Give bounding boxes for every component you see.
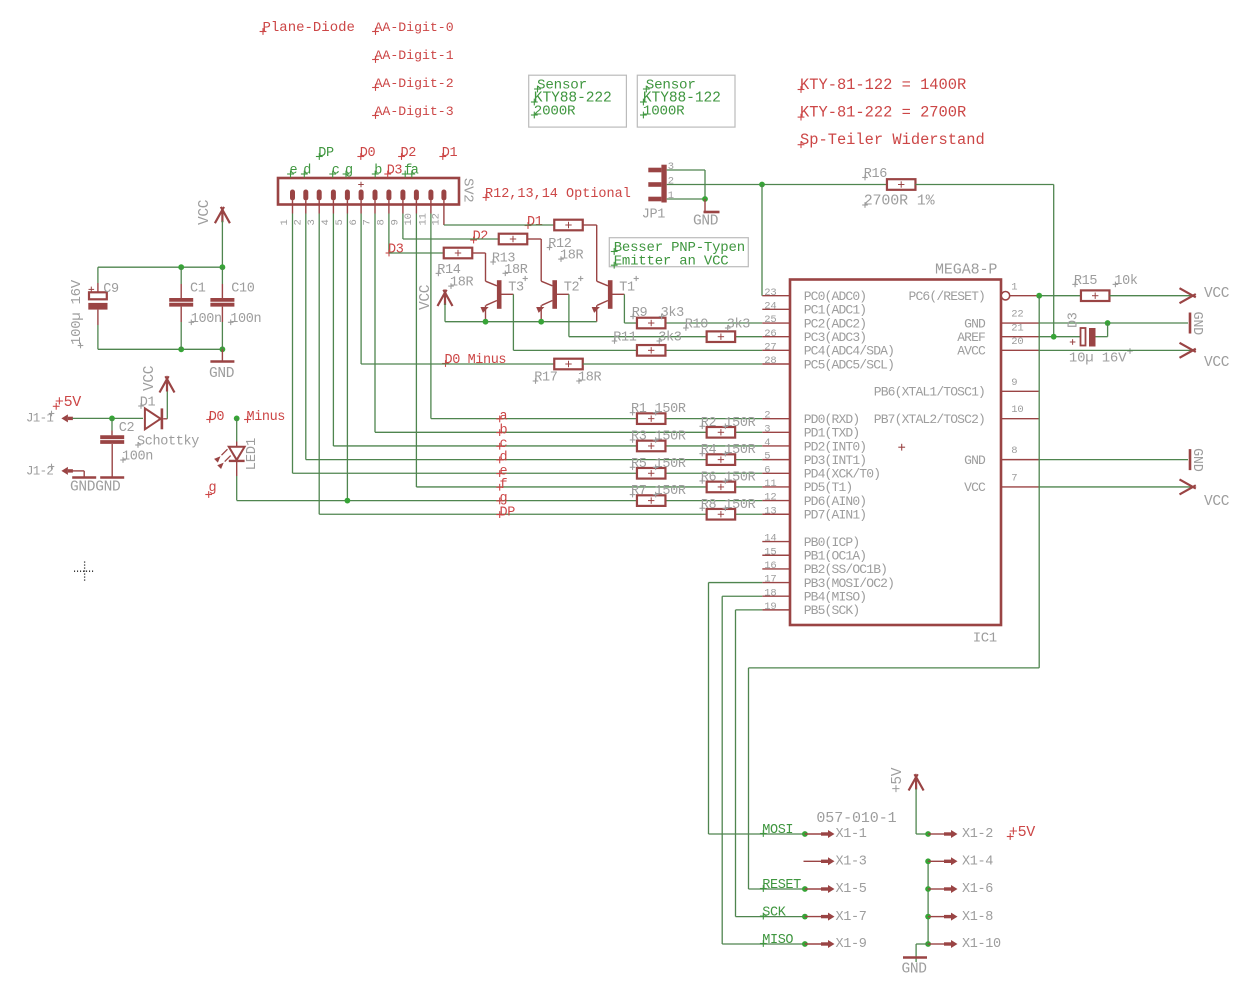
svg-text:9: 9 (1011, 377, 1017, 389)
svg-text:17: 17 (764, 574, 776, 586)
svg-text:12: 12 (431, 213, 443, 225)
svg-text:GND: GND (693, 214, 718, 230)
svg-text:Sp-Teiler Widerstand: Sp-Teiler Widerstand (800, 131, 985, 149)
svg-text:Minus: Minus (247, 410, 286, 425)
svg-text:1000R: 1000R (643, 104, 685, 120)
svg-text:3k3: 3k3 (727, 318, 751, 333)
svg-text:100n: 100n (230, 312, 261, 327)
svg-text:4: 4 (320, 219, 332, 225)
svg-text:PC6(/RESET): PC6(/RESET) (909, 289, 985, 304)
svg-text:21: 21 (1011, 322, 1023, 334)
svg-text:10µ 16V: 10µ 16V (1069, 351, 1127, 367)
svg-text:28: 28 (764, 355, 776, 367)
svg-text:GND: GND (1189, 312, 1204, 336)
svg-text:19: 19 (764, 601, 776, 613)
svg-text:SCK: SCK (762, 906, 786, 921)
svg-text:4: 4 (764, 437, 770, 449)
svg-text:20: 20 (1011, 336, 1023, 348)
svg-text:1: 1 (279, 219, 291, 225)
svg-text:PB7(XTAL2/TOSC2): PB7(XTAL2/TOSC2) (874, 412, 985, 427)
svg-text:T1: T1 (619, 281, 635, 296)
svg-text:18: 18 (764, 587, 776, 599)
svg-text:AVCC: AVCC (957, 344, 986, 359)
svg-text:T3: T3 (508, 281, 524, 296)
svg-text:R8: R8 (701, 498, 717, 513)
svg-text:11: 11 (418, 213, 430, 225)
svg-text:R16: R16 (864, 167, 888, 182)
svg-text:13: 13 (764, 505, 776, 517)
svg-text:MEGA8-P: MEGA8-P (935, 262, 997, 279)
svg-text:AA-Digit-3: AA-Digit-3 (375, 104, 454, 119)
svg-text:+5V: +5V (890, 767, 906, 793)
svg-text:X1-4: X1-4 (962, 855, 993, 870)
svg-text:VCC: VCC (142, 365, 158, 391)
svg-text:057-010-1: 057-010-1 (816, 810, 896, 827)
svg-text:100n: 100n (191, 312, 222, 327)
svg-text:1: 1 (668, 190, 674, 202)
svg-text:R6: R6 (701, 470, 717, 485)
svg-text:2: 2 (668, 176, 674, 188)
svg-text:X1-10: X1-10 (962, 937, 1001, 952)
svg-text:11: 11 (764, 478, 776, 490)
svg-text:PC5(ADC5/SCL): PC5(ADC5/SCL) (804, 357, 894, 372)
svg-text:14: 14 (764, 533, 776, 545)
svg-text:150R: 150R (655, 402, 686, 417)
svg-text:GND: GND (902, 962, 927, 978)
svg-text:3: 3 (306, 219, 318, 225)
svg-text:150R: 150R (724, 443, 755, 458)
svg-text:18R: 18R (578, 371, 602, 386)
svg-text:X1-8: X1-8 (962, 910, 993, 925)
svg-text:IC1: IC1 (973, 631, 997, 647)
svg-text:AA-Digit-2: AA-Digit-2 (375, 76, 454, 91)
svg-text:D2: D2 (401, 146, 417, 161)
svg-text:150R: 150R (724, 416, 755, 431)
svg-text:150R: 150R (655, 429, 686, 444)
svg-text:R4: R4 (701, 443, 717, 458)
svg-text:VCC: VCC (197, 199, 213, 225)
svg-text:Emitter an VCC: Emitter an VCC (614, 254, 729, 270)
svg-text:R11: R11 (613, 331, 637, 346)
svg-text:VCC: VCC (418, 284, 434, 310)
svg-text:150R: 150R (655, 484, 686, 499)
svg-text:D1: D1 (527, 215, 543, 230)
svg-text:8: 8 (376, 219, 388, 225)
svg-text:PB5(SCK): PB5(SCK) (804, 603, 860, 618)
svg-text:26: 26 (764, 328, 776, 340)
svg-text:VCC: VCC (964, 480, 986, 495)
svg-text:X1-9: X1-9 (836, 937, 867, 952)
svg-text:100n: 100n (122, 450, 153, 465)
svg-text:DP: DP (318, 146, 334, 161)
svg-text:C2: C2 (119, 421, 135, 436)
svg-text:150R: 150R (724, 498, 755, 513)
svg-text:D1: D1 (140, 396, 156, 411)
svg-text:X1-6: X1-6 (962, 882, 993, 897)
svg-text:GND: GND (1189, 448, 1204, 472)
svg-text:GNDGND: GNDGND (70, 480, 120, 496)
svg-text:PD7(AIN1): PD7(AIN1) (804, 508, 867, 523)
svg-text:1: 1 (1011, 281, 1017, 293)
svg-text:GND: GND (964, 453, 986, 468)
svg-text:7: 7 (362, 219, 374, 225)
svg-text:2700R 1%: 2700R 1% (864, 193, 936, 210)
svg-text:6: 6 (348, 219, 360, 225)
svg-text:+5V: +5V (1009, 824, 1035, 841)
svg-text:D3: D3 (1067, 312, 1082, 328)
svg-text:23: 23 (764, 287, 776, 299)
svg-text:R10: R10 (685, 318, 709, 333)
svg-text:GND: GND (209, 366, 234, 382)
svg-text:KTY-81-222 = 2700R: KTY-81-222 = 2700R (800, 104, 966, 122)
svg-text:LED1: LED1 (244, 438, 260, 470)
svg-text:D0: D0 (360, 146, 376, 161)
svg-text:24: 24 (764, 300, 776, 312)
svg-text:5: 5 (764, 451, 770, 463)
svg-text:JP1: JP1 (642, 208, 666, 223)
svg-text:R3: R3 (631, 429, 647, 444)
svg-text:RESET: RESET (762, 878, 801, 893)
svg-text:15: 15 (764, 546, 776, 558)
svg-text:18R: 18R (504, 263, 528, 278)
svg-text:D1: D1 (442, 146, 458, 161)
svg-text:C1: C1 (190, 281, 206, 296)
svg-text:g: g (209, 481, 217, 496)
svg-text:6: 6 (764, 464, 770, 476)
svg-text:150R: 150R (655, 457, 686, 472)
svg-text:7: 7 (1011, 473, 1017, 485)
svg-text:3: 3 (764, 423, 770, 435)
svg-text:X1-2: X1-2 (962, 827, 993, 842)
svg-text:3k3: 3k3 (661, 306, 685, 321)
svg-text:R12,13,14 Optional: R12,13,14 Optional (485, 187, 631, 202)
svg-text:C9: C9 (103, 282, 119, 297)
svg-text:MOSI: MOSI (762, 823, 793, 838)
svg-text:R5: R5 (631, 457, 647, 472)
svg-text:X1-5: X1-5 (836, 882, 867, 897)
svg-text:18R: 18R (450, 276, 474, 291)
svg-text:2: 2 (293, 219, 305, 225)
svg-text:R2: R2 (701, 416, 717, 431)
svg-text:PB6(XTAL1/TOSC1): PB6(XTAL1/TOSC1) (874, 385, 985, 400)
svg-text:KTY-81-122 = 1400R: KTY-81-122 = 1400R (800, 76, 966, 94)
svg-text:8: 8 (1011, 445, 1017, 457)
svg-text:D3: D3 (388, 243, 404, 258)
svg-text:10: 10 (1011, 404, 1023, 416)
svg-text:D2: D2 (473, 230, 489, 245)
svg-text:10k: 10k (1114, 274, 1138, 289)
svg-text:D0 Minus: D0 Minus (445, 353, 507, 368)
svg-text:R9: R9 (632, 306, 648, 321)
svg-text:5: 5 (334, 219, 346, 225)
svg-text:18R: 18R (560, 249, 584, 264)
svg-text:22: 22 (1011, 309, 1023, 321)
svg-text:DP: DP (500, 505, 516, 520)
svg-text:D3: D3 (387, 164, 403, 179)
svg-text:SV2: SV2 (460, 178, 476, 202)
svg-text:2000R: 2000R (534, 104, 576, 120)
svg-text:2: 2 (764, 410, 770, 422)
svg-text:AA-Digit-0: AA-Digit-0 (375, 20, 454, 35)
svg-text:12: 12 (764, 492, 776, 504)
svg-text:27: 27 (764, 341, 776, 353)
svg-text:MISO: MISO (762, 933, 793, 948)
svg-text:X1-1: X1-1 (836, 827, 867, 842)
svg-text:R7: R7 (631, 484, 647, 499)
svg-text:X1-3: X1-3 (836, 855, 867, 870)
svg-text:R15: R15 (1074, 274, 1098, 289)
svg-text:X1-7: X1-7 (836, 910, 867, 925)
svg-text:25: 25 (764, 314, 776, 326)
svg-text:R1: R1 (631, 402, 647, 417)
svg-text:VCC: VCC (1204, 355, 1230, 371)
svg-text:3k3: 3k3 (658, 331, 682, 346)
svg-text:100µ 16V: 100µ 16V (69, 279, 85, 345)
svg-text:Schottky: Schottky (137, 435, 199, 450)
svg-text:VCC: VCC (1204, 494, 1230, 510)
svg-text:C10: C10 (231, 281, 255, 296)
svg-text:9: 9 (390, 219, 402, 225)
svg-text:Plane-Diode: Plane-Diode (263, 20, 355, 36)
svg-text:16: 16 (764, 560, 776, 572)
svg-text:R17: R17 (534, 371, 558, 386)
svg-text:AA-Digit-1: AA-Digit-1 (375, 48, 454, 63)
svg-text:3: 3 (668, 161, 674, 173)
svg-text:D0: D0 (209, 410, 225, 425)
svg-text:10: 10 (403, 213, 415, 225)
svg-text:VCC: VCC (1204, 286, 1230, 302)
svg-text:T2: T2 (564, 281, 580, 296)
svg-text:+5V: +5V (55, 394, 81, 411)
svg-text:150R: 150R (724, 470, 755, 485)
